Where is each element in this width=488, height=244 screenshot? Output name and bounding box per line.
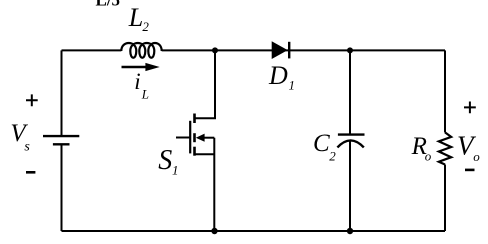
wire MOSFET drain from top rail xyxy=(195,50,216,118)
capacitor C2 xyxy=(338,133,365,135)
inductor L2 xyxy=(121,43,161,58)
svg-text:L: L xyxy=(128,3,143,32)
wire top rail left (source to inductor) xyxy=(62,49,122,51)
wire right rail top xyxy=(444,50,446,132)
svg-text:i: i xyxy=(134,69,140,94)
current arrow iL xyxy=(122,66,148,68)
svg-text:2: 2 xyxy=(329,148,336,163)
wire bottom rail xyxy=(62,230,446,232)
svg-text:1: 1 xyxy=(172,163,179,178)
plus sign source xyxy=(26,94,38,106)
voltage source Vs battery xyxy=(61,50,63,135)
wire C2 to bottom rail xyxy=(349,141,351,231)
svg-text:C: C xyxy=(313,130,330,157)
wire MOSFET source to bottom rail xyxy=(213,138,215,231)
plus sign output xyxy=(464,102,476,114)
svg-text:S: S xyxy=(158,145,172,176)
node junction dot top at MOSFET branch xyxy=(212,47,218,53)
svg-text:L/5: L/5 xyxy=(96,0,121,10)
svg-text:L: L xyxy=(141,86,149,101)
wire C2 branch from top rail xyxy=(349,50,351,134)
node junction dot bottom at C2 branch xyxy=(347,228,353,234)
minus sign output xyxy=(465,169,475,172)
svg-text:s: s xyxy=(24,139,30,154)
svg-text:o: o xyxy=(473,149,480,164)
resistor Ro zigzag xyxy=(439,132,451,164)
transistor S1 MOSFET xyxy=(176,114,214,156)
wire right rail bottom xyxy=(444,165,446,232)
node junction dot top at C2 branch xyxy=(347,47,353,53)
node junction dot bottom at MOSFET branch xyxy=(211,228,217,234)
svg-text:1: 1 xyxy=(289,78,296,93)
minus sign source xyxy=(26,171,35,174)
wire top rail right (inductor to output corner) xyxy=(162,49,445,51)
svg-text:o: o xyxy=(425,148,432,163)
svg-text:2: 2 xyxy=(142,19,149,34)
svg-text:D: D xyxy=(268,61,288,90)
diode D1 xyxy=(272,41,288,59)
